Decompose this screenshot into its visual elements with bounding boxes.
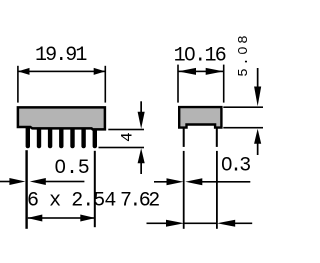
svg-text:7.62: 7.62 <box>120 190 159 213</box>
svg-text:0.5: 0.5 <box>54 157 89 180</box>
dimension 0.5 arrow left (points right) <box>9 178 25 185</box>
dimension 0.5 arrow right (points left) <box>30 178 46 185</box>
pin 6 front view <box>81 125 85 148</box>
dimension 19.91 extension line right <box>105 66 107 103</box>
leader line body top right <box>223 106 263 108</box>
dimension 7.62 arrow right (points left) <box>217 220 235 227</box>
dimension 0.3 tail right <box>202 181 250 183</box>
dimension 19.91 line <box>18 71 105 73</box>
leader line body bottom right <box>223 127 263 129</box>
dimension 10.16 arrow right <box>206 68 224 75</box>
dimension 19.91 arrow left <box>18 68 30 75</box>
dimension 6 x 2.54 arrow right <box>80 215 95 222</box>
dimension 0.3 tail left <box>154 181 167 183</box>
dimension 5.08 arrow top (down) <box>254 68 261 106</box>
pin right extension line <box>216 151 218 229</box>
pin right side view <box>216 127 218 147</box>
dimension 5.08 arrow bottom (up) <box>254 129 261 155</box>
plain-zero patches <box>58 164 62 168</box>
dimension 19.91 arrow right <box>94 68 106 75</box>
dimension 6 x 2.54 arrow left <box>27 215 42 222</box>
pin 1 front view <box>26 125 30 148</box>
svg-text:5.08: 5.08 <box>236 33 252 77</box>
pin 4 front view <box>59 125 63 148</box>
pin left extension line <box>183 151 185 229</box>
dimension 7.62 line middle <box>184 223 217 225</box>
dimension 10.16 extension line left <box>177 65 179 103</box>
pin 1 extension line <box>25 150 27 229</box>
dimension 4 arrow bottom (up) <box>138 148 145 174</box>
svg-text:4: 4 <box>119 132 137 142</box>
package body side view <box>179 107 221 128</box>
svg-text:6 x 2.54: 6 x 2.54 <box>27 190 115 213</box>
svg-text:10.16: 10.16 <box>174 45 226 68</box>
leader line pin end right <box>99 147 145 149</box>
dimension 0.3 arrow left (points right) <box>167 178 184 185</box>
dimension 10.16 extension line right <box>223 65 225 103</box>
dimension 4 arrow top (down) <box>138 101 145 128</box>
pin 7 front view <box>93 125 97 148</box>
pin 7 extension line <box>94 151 96 227</box>
pin left side view <box>183 127 185 147</box>
dimension 10.16 line <box>178 71 224 73</box>
dimension 0.5 tail left <box>0 181 10 183</box>
dimension 0.3 arrow right (points left) <box>185 178 202 185</box>
dimension 0.5 tail right <box>45 181 84 183</box>
dimension 6 x 2.54 line <box>28 217 95 219</box>
pin 5 front view <box>70 125 74 148</box>
svg-text:19.91: 19.91 <box>35 44 87 67</box>
package body front view <box>18 107 105 129</box>
pin 3 front view <box>48 125 52 148</box>
pin 2 front view <box>37 125 41 148</box>
dimension 7.62 arrow left (points right) <box>166 220 184 227</box>
svg-text:0.3: 0.3 <box>221 155 250 178</box>
leader line body bottom right <box>108 129 144 131</box>
dimension 19.91 extension line left <box>17 66 19 103</box>
dimension 7.62 tail left <box>147 223 167 225</box>
dimension 7.62 tail right <box>235 223 252 225</box>
dimension 10.16 arrow left <box>178 68 196 75</box>
